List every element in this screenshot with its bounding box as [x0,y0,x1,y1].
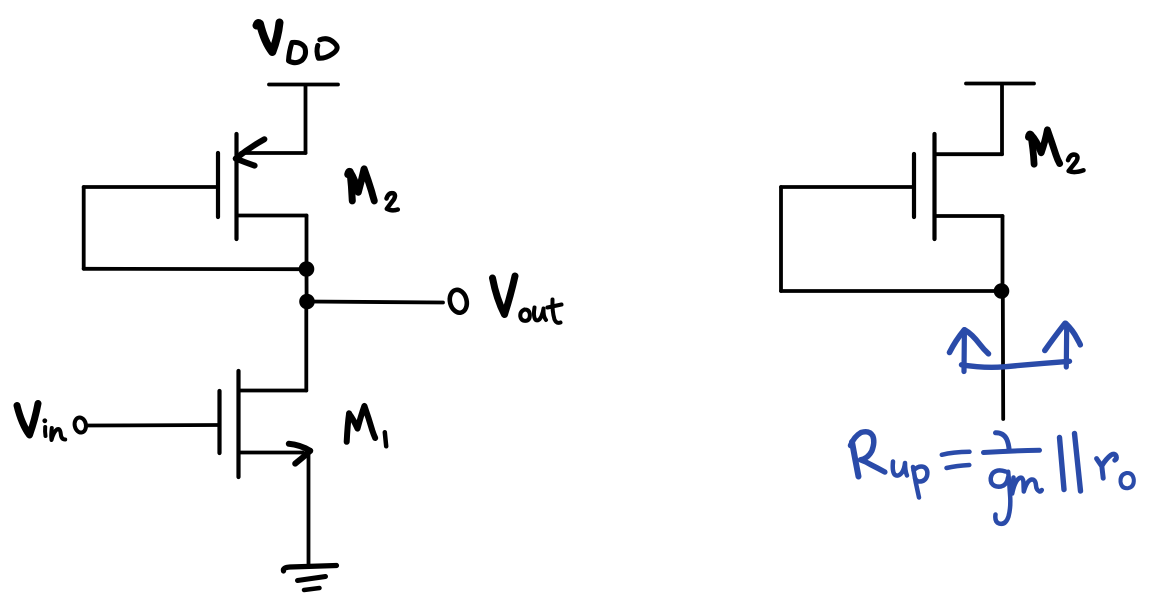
wire M2b gate loop bottom [781,289,999,293]
node B (right drain/gate junction) [994,283,1010,299]
M1 source wire [240,451,303,455]
M2 source arrow [236,139,265,165]
M1 gate wire [88,423,218,427]
VDD supply bar (right) [966,82,1034,86]
transistor M1 channel bar [236,371,240,477]
wire output [307,302,443,303]
wire VDD bar to M2b source [1000,84,1004,154]
wire M2b drain down to node [1001,216,1005,290]
transistor M2 gate bar [216,153,220,217]
node Vout junction [299,294,315,310]
wire M1 source to ground [307,453,311,566]
label Vout [493,276,562,323]
M1 drain wire [240,389,306,393]
terminal Vout circle [447,288,469,315]
wire output node down to M1 drain [304,302,308,391]
label Vin [17,404,65,441]
M2b gate wire [781,185,912,189]
wire node A to output node [305,269,309,302]
ground [283,566,336,591]
transistor M2 channel bar [234,134,238,239]
label M1 [347,406,387,446]
M2 source wire [241,151,306,155]
annotation crossbar (blue) [962,361,1070,367]
wire M2 gate loop left vertical [82,187,86,269]
M2b drain wire [936,214,1003,218]
net label VDD [257,23,338,63]
M2 drain wire [238,214,307,218]
fraction 1/gm (blue) [984,433,1042,524]
VDD supply bar (left) [269,83,338,87]
M2 gate wire [84,185,216,189]
wire VDD bar to M2 source [304,85,308,153]
label Rup (blue) [851,432,928,498]
wire node B down (Rup probe) [1001,291,1005,419]
annotation arrow left (blue up arrow) [950,330,989,372]
parallel bars (blue) [1060,434,1081,492]
wire M2 gate loop bottom [84,267,303,271]
node A (M2 drain/gate junction) [299,261,315,277]
label ro (blue) [1097,454,1134,488]
annotation arrow right (blue up arrow) [1045,323,1081,367]
M2b source wire [937,152,1003,156]
transistor M1 gate bar [217,391,221,453]
transistor M2 (right) channel bar [932,134,936,239]
label M2 (right) [1028,130,1083,172]
transistor M2 (right) gate bar [912,154,916,217]
terminal Vin circle [73,416,87,433]
wire M2b gate loop left vertical [779,187,783,291]
wire M2 drain down to node [305,216,309,269]
equals sign (blue) [942,452,970,468]
M1 source arrow [289,444,310,464]
label M2 (left) [348,169,398,210]
